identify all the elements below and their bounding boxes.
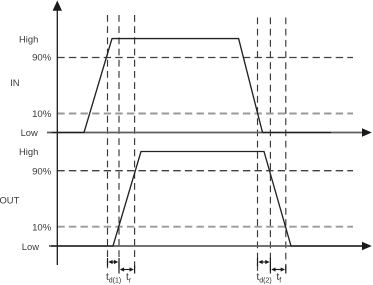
tr measurement terminator bars	[118, 266, 120, 274]
tr double arrow	[121, 269, 133, 271]
svg-text:90%: 90%	[32, 166, 52, 177]
OUT waveform	[51, 152, 362, 247]
IN waveform	[52, 39, 332, 133]
IN plot horizontal axis (gray)	[47, 132, 363, 134]
tf measurement terminator bars	[269, 266, 271, 274]
svg-text:10%: 10%	[32, 222, 52, 233]
svg-text:10%: 10%	[32, 109, 52, 120]
90% level dashed line (IN plot)	[57, 57, 353, 59]
svg-text:Low: Low	[21, 127, 38, 138]
tf double arrow	[272, 269, 283, 271]
OUT plot axis arrowhead	[362, 242, 372, 251]
svg-text:Low: Low	[22, 241, 39, 252]
vertical dashed marker line L5 (OUT 90% crossing, fall)	[269, 18, 271, 273]
vertical dashed marker line L4 (IN 10% crossing, fall)	[257, 18, 259, 273]
vertical axis arrowhead	[53, 1, 62, 11]
OUT plot horizontal axis (gray)	[49, 245, 363, 247]
10% level dashed line (IN plot)	[57, 113, 353, 115]
10% level dashed line (OUT plot)	[57, 226, 353, 228]
td(1) measurement terminator bars	[107, 258, 109, 266]
90% level dashed line (OUT plot)	[57, 170, 353, 172]
vertical dashed marker line L6 (OUT 10% crossing, fall)	[285, 18, 287, 273]
svg-text:90%: 90%	[32, 52, 52, 63]
svg-text:OUT: OUT	[0, 194, 20, 205]
td(2) double arrow	[260, 261, 269, 263]
td(2) measurement terminator bars	[257, 258, 259, 266]
vertical dashed marker line L2 (OUT 10% crossing, rise)	[118, 15, 120, 272]
svg-text:IN: IN	[10, 77, 19, 88]
vertical axis	[56, 9, 58, 265]
vertical dashed marker line L3 (OUT 90% crossing, rise)	[134, 15, 136, 272]
IN plot axis arrowhead	[362, 128, 372, 137]
svg-text:High: High	[19, 33, 38, 44]
svg-text:High: High	[19, 146, 38, 157]
td(1) double arrow	[110, 261, 118, 263]
vertical dashed marker line L1 (IN 90% crossing, rise)	[107, 15, 109, 272]
